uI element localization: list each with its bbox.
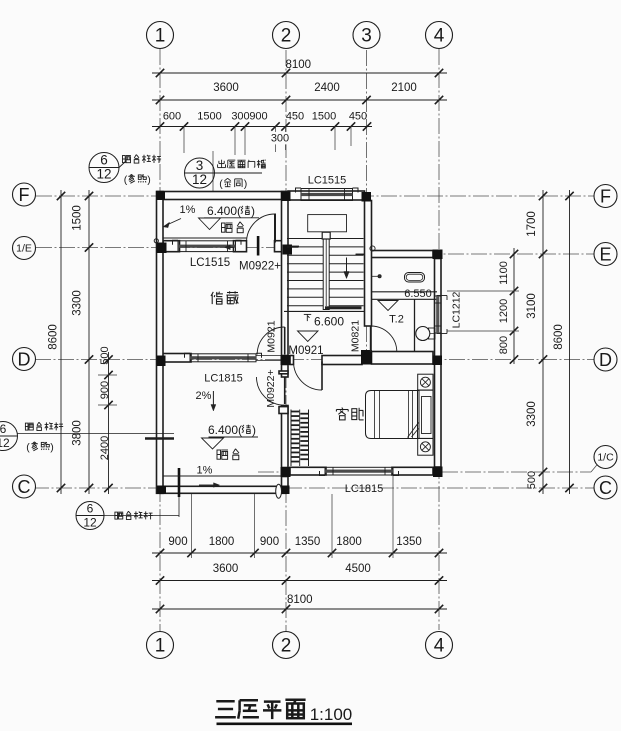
svg-text:900: 900 — [249, 111, 267, 123]
svg-text:1/C: 1/C — [597, 452, 614, 464]
svg-text:8100: 8100 — [287, 594, 313, 606]
svg-text:12: 12 — [96, 167, 111, 182]
svg-text:3800: 3800 — [72, 420, 84, 446]
svg-text:6: 6 — [87, 502, 94, 516]
svg-text:6.550: 6.550 — [404, 288, 432, 300]
svg-text:1350: 1350 — [396, 536, 422, 548]
svg-text:6: 6 — [100, 153, 108, 168]
svg-text:4: 4 — [434, 636, 445, 657]
svg-text:M0821: M0821 — [350, 320, 362, 352]
svg-text:1800: 1800 — [336, 536, 362, 548]
svg-text:2: 2 — [281, 26, 292, 47]
svg-text:(: ( — [26, 442, 30, 454]
svg-text:600: 600 — [163, 111, 181, 123]
svg-text:2100: 2100 — [391, 82, 417, 94]
svg-text:8100: 8100 — [286, 59, 312, 71]
svg-text:800: 800 — [498, 336, 510, 354]
svg-text:12: 12 — [83, 516, 97, 530]
svg-text:2400: 2400 — [99, 436, 111, 460]
svg-text:1800: 1800 — [209, 536, 235, 548]
svg-text:3300: 3300 — [72, 290, 84, 316]
svg-text:M0922+: M0922+ — [265, 369, 277, 407]
svg-text:3600: 3600 — [213, 563, 239, 575]
svg-text:1: 1 — [155, 636, 166, 657]
svg-text:1:100: 1:100 — [310, 705, 353, 724]
svg-text:8600: 8600 — [48, 324, 60, 350]
svg-text:1700: 1700 — [526, 211, 538, 237]
svg-text:C: C — [18, 477, 31, 497]
svg-text:(: ( — [219, 178, 223, 190]
svg-text:900: 900 — [168, 536, 187, 548]
svg-text:3: 3 — [361, 26, 372, 47]
svg-text:D: D — [18, 349, 31, 369]
svg-text:2400: 2400 — [314, 82, 340, 94]
svg-text:1/E: 1/E — [16, 243, 32, 255]
svg-text:300: 300 — [231, 111, 249, 123]
svg-text:3100: 3100 — [526, 293, 538, 319]
svg-text:900: 900 — [99, 381, 111, 399]
svg-text:LC1515: LC1515 — [308, 175, 347, 187]
svg-text:LC1515: LC1515 — [190, 257, 230, 269]
svg-text:): ) — [252, 423, 256, 437]
svg-text:M0921: M0921 — [288, 345, 323, 357]
svg-text:1500: 1500 — [72, 205, 84, 231]
svg-text:1200: 1200 — [498, 299, 510, 323]
svg-text:8600: 8600 — [553, 324, 565, 350]
svg-text:6.400(: 6.400( — [207, 204, 241, 218]
svg-text:300: 300 — [271, 133, 289, 145]
svg-text:6.400(: 6.400( — [208, 423, 242, 437]
svg-text:500: 500 — [526, 471, 538, 489]
svg-text:1100: 1100 — [498, 261, 510, 285]
svg-text:900: 900 — [260, 536, 279, 548]
svg-text:4500: 4500 — [345, 563, 371, 575]
svg-text:4: 4 — [434, 26, 445, 47]
svg-text:T.2: T.2 — [389, 314, 404, 326]
svg-text:M0922+: M0922+ — [239, 261, 281, 273]
svg-text:1%: 1% — [197, 465, 213, 477]
svg-text:E: E — [599, 244, 611, 264]
svg-text:2: 2 — [281, 636, 292, 657]
svg-text:): ) — [147, 174, 151, 186]
svg-text:LC1815: LC1815 — [204, 373, 243, 385]
svg-text:450: 450 — [286, 111, 304, 123]
svg-text:6: 6 — [0, 422, 7, 436]
svg-text:3300: 3300 — [526, 401, 538, 427]
svg-text:1500: 1500 — [312, 111, 336, 123]
svg-text:LC1815: LC1815 — [345, 483, 384, 495]
svg-text:12: 12 — [192, 172, 207, 187]
svg-text:1%: 1% — [180, 204, 196, 216]
svg-text:M0921: M0921 — [266, 320, 278, 352]
svg-text:500: 500 — [99, 346, 111, 364]
svg-text:450: 450 — [349, 111, 367, 123]
svg-text:F: F — [19, 185, 30, 205]
svg-text:F: F — [600, 186, 611, 206]
svg-text:(: ( — [124, 174, 128, 186]
svg-text:1350: 1350 — [295, 536, 321, 548]
svg-text:1: 1 — [155, 26, 166, 47]
svg-text:D: D — [599, 350, 612, 370]
svg-text:3: 3 — [196, 158, 204, 173]
svg-text:3600: 3600 — [213, 82, 239, 94]
svg-text:): ) — [251, 204, 255, 218]
svg-text:2%: 2% — [196, 390, 212, 402]
svg-text:12: 12 — [0, 436, 10, 450]
svg-text:): ) — [50, 442, 54, 454]
svg-text:LC1212: LC1212 — [451, 291, 463, 328]
svg-text:): ) — [244, 178, 248, 190]
svg-text:6.600: 6.600 — [314, 315, 344, 329]
svg-text:1500: 1500 — [197, 111, 221, 123]
svg-text:C: C — [599, 478, 612, 498]
